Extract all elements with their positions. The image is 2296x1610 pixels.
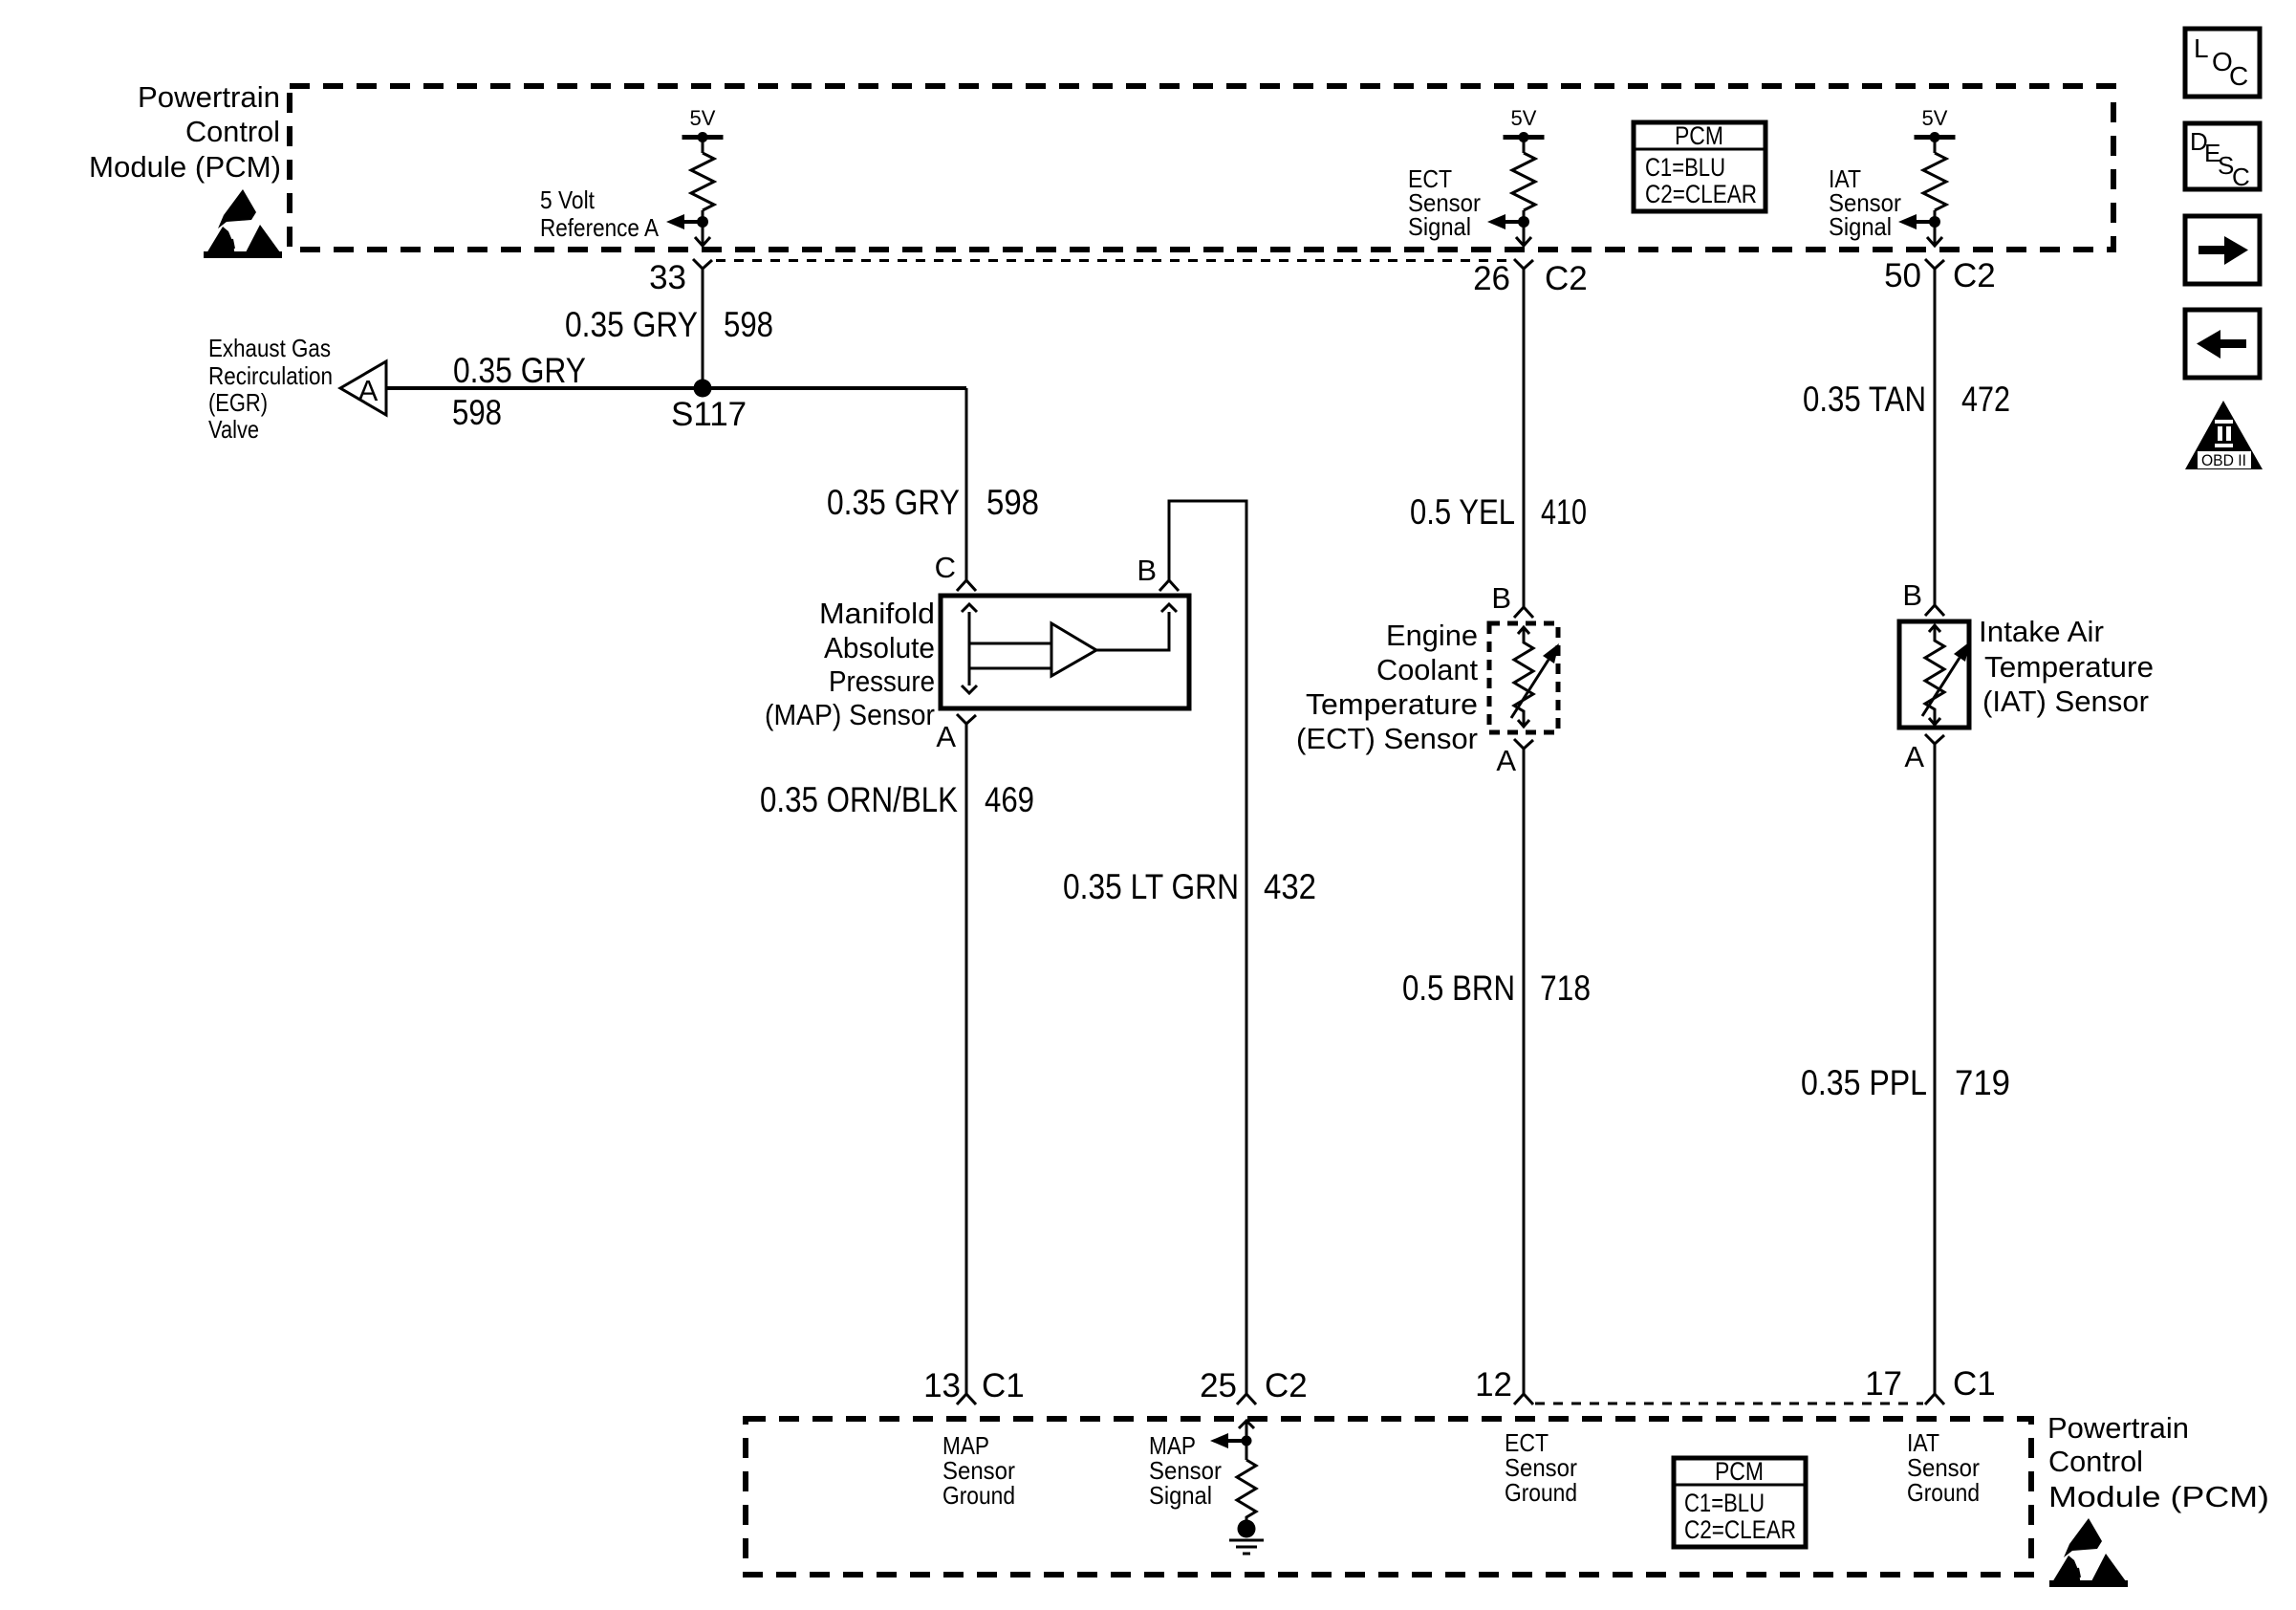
pin 26 C2 <box>1473 259 1588 297</box>
svg-text:Signal: Signal <box>1408 212 1471 241</box>
svg-text:B: B <box>1137 554 1157 587</box>
svg-text:A: A <box>1904 740 1924 773</box>
icon: LOC box <box>2185 29 2260 97</box>
svg-text:C2=CLEAR: C2=CLEAR <box>1645 180 1757 208</box>
svg-text:Coolant: Coolant <box>1376 653 1478 686</box>
svg-text:26: 26 <box>1473 260 1510 297</box>
svg-text:Powertrain: Powertrain <box>138 80 280 114</box>
svg-text:0.35 GRY: 0.35 GRY <box>453 351 586 390</box>
label: Engine Coolant Temperature (ECT) Sensor <box>1296 619 1478 755</box>
PCM internal: MAP signal pull-down resistor <box>1210 1421 1256 1522</box>
label: Powertrain Control Module (PCM), bottom-right <box>2047 1411 2269 1513</box>
pin 12 <box>1475 1366 1533 1404</box>
svg-text:Control: Control <box>185 115 280 148</box>
svg-text:C2: C2 <box>1953 257 1996 294</box>
resistor R (5V reference A pull-up) <box>666 106 724 246</box>
svg-text:B: B <box>1491 581 1511 615</box>
label: Intake Air Temperature (IAT) Sensor <box>1979 615 2154 718</box>
svg-text:17: 17 <box>1865 1365 1902 1403</box>
MAP sensor box U1 <box>941 596 1189 708</box>
svg-text:Ground: Ground <box>1505 1478 1577 1507</box>
pin B (IAT) <box>1902 578 1944 616</box>
svg-text:B: B <box>1902 578 1922 612</box>
svg-text:C1: C1 <box>1953 1365 1996 1403</box>
svg-text:PCM: PCM <box>1715 1457 1764 1486</box>
IAT thermistor <box>1922 625 1970 725</box>
svg-text:0.35 PPL: 0.35 PPL <box>1801 1063 1927 1102</box>
ECT sensor box (dashed) <box>1489 623 1558 732</box>
svg-text:0.35 TAN: 0.35 TAN <box>1803 380 1926 419</box>
svg-text:432: 432 <box>1264 867 1316 906</box>
PCM connector legend (bottom) <box>1674 1457 1806 1547</box>
svg-text:Reference A: Reference A <box>540 213 660 242</box>
svg-text:0.35 GRY: 0.35 GRY <box>565 305 698 344</box>
pin 25 C2 <box>1200 1367 1308 1404</box>
PCM module box (top, dashed) <box>290 86 2113 250</box>
svg-text:A: A <box>1496 744 1516 777</box>
svg-text:(IAT) Sensor: (IAT) Sensor <box>1982 685 2149 718</box>
pin A (MAP) <box>936 714 976 753</box>
svg-text:718: 718 <box>1540 968 1591 1008</box>
svg-text:472: 472 <box>1961 380 2010 419</box>
svg-text:Temperature: Temperature <box>1984 650 2154 684</box>
svg-text:Absolute: Absolute <box>824 631 935 664</box>
connector face line C2 (top, dashed) <box>716 259 1512 262</box>
svg-text:Control: Control <box>2048 1445 2143 1478</box>
label: 0.35 TAN 472 <box>1803 380 2010 419</box>
svg-text:(MAP) Sensor: (MAP) Sensor <box>765 698 935 731</box>
PCM module box (bottom, dashed) <box>746 1419 2031 1575</box>
label: ECT Sensor Ground <box>1505 1428 1577 1507</box>
wire: IAT A down to pin 17 <box>1934 744 1937 1394</box>
resistor R (ECT signal pull-up) <box>1487 106 1545 246</box>
wire: EGR to corner (main horizontal) <box>386 386 966 390</box>
svg-text:C1=BLU: C1=BLU <box>1684 1489 1765 1517</box>
label: 0.35 PPL 719 <box>1801 1063 2010 1102</box>
MAP internal: op-amp triangle <box>1051 623 1096 676</box>
pin A (ECT) <box>1496 739 1533 777</box>
pin 33 <box>649 259 712 296</box>
wire: pin 50 down to IAT B <box>1934 269 1937 605</box>
svg-text:0.35 LT GRN: 0.35 LT GRN <box>1063 867 1239 906</box>
label: ECT Sensor Signal <box>1408 164 1481 241</box>
svg-text:Recirculation: Recirculation <box>208 361 333 390</box>
label: 0.5 YEL 410 <box>1410 492 1587 532</box>
icon: left-arrow box <box>2185 310 2260 378</box>
svg-text:Module (PCM): Module (PCM) <box>2048 1480 2269 1513</box>
label: 0.35 LT GRN 432 <box>1063 867 1316 906</box>
wire: pin 26 down to ECT B <box>1523 269 1526 607</box>
svg-text:C: C <box>2232 163 2250 191</box>
svg-text:(EGR): (EGR) <box>208 388 268 417</box>
svg-text:C2=CLEAR: C2=CLEAR <box>1684 1515 1796 1544</box>
label: IAT Sensor Signal <box>1829 164 1901 241</box>
ESD symbol (top PCM) <box>204 189 282 258</box>
svg-text:598: 598 <box>986 483 1039 522</box>
svg-text:25: 25 <box>1200 1367 1237 1404</box>
svg-text:S117: S117 <box>671 396 747 433</box>
svg-text:Ground: Ground <box>942 1481 1015 1510</box>
pin C (MAP) <box>935 551 976 591</box>
svg-text:12: 12 <box>1475 1366 1512 1403</box>
pin B (ECT) <box>1491 581 1533 618</box>
label: IAT Sensor Ground <box>1907 1428 1980 1507</box>
svg-text:410: 410 <box>1541 492 1587 532</box>
MAP internal: output to B <box>1096 604 1177 650</box>
label: MAP Sensor Signal <box>1149 1431 1222 1510</box>
svg-text:Ground: Ground <box>1907 1478 1980 1507</box>
label: Powertrain Control Module (PCM), top-left <box>89 80 281 184</box>
label: Exhaust Gas Recirculation (EGR) Valve <box>208 334 333 444</box>
svg-text:C1: C1 <box>982 1367 1025 1404</box>
svg-text:Engine: Engine <box>1386 619 1478 652</box>
svg-text:Valve: Valve <box>208 415 259 444</box>
svg-text:Pressure: Pressure <box>829 664 935 698</box>
svg-text:13: 13 <box>923 1367 961 1404</box>
svg-text:719: 719 <box>1955 1063 2010 1102</box>
svg-text:L: L <box>2194 33 2209 63</box>
svg-text:0.35 GRY: 0.35 GRY <box>827 483 960 522</box>
pin B (MAP) <box>1137 554 1179 591</box>
svg-text:C2: C2 <box>1265 1367 1308 1404</box>
ESD symbol (bottom PCM) <box>2049 1518 2128 1587</box>
svg-text:50: 50 <box>1884 257 1921 294</box>
connector face line C1 (bottom, dashed) <box>1535 1403 1923 1405</box>
PCM connector legend (top) <box>1634 121 1765 211</box>
svg-text:Signal: Signal <box>1829 212 1892 241</box>
pin A (IAT) <box>1904 734 1944 773</box>
wire: ECT A down to pin 12 <box>1523 749 1526 1394</box>
ECT thermistor <box>1511 627 1559 727</box>
label: 598 (EGR wire) <box>452 393 502 432</box>
svg-text:Module (PCM): Module (PCM) <box>89 150 281 184</box>
icon: right-arrow box <box>2185 216 2260 284</box>
svg-text:598: 598 <box>724 305 773 344</box>
svg-text:0.5 YEL: 0.5 YEL <box>1410 492 1515 532</box>
svg-text:0.5 BRN: 0.5 BRN <box>1402 968 1515 1008</box>
wire: MAP B up-over-down to pin 25 <box>1169 501 1246 1394</box>
splice S117 <box>671 380 747 434</box>
connector A: EGR valve triangle <box>340 361 386 415</box>
ground symbol (PCM internal) <box>1229 1520 1264 1555</box>
label: 0.35 GRY (EGR wire) <box>453 351 586 390</box>
svg-text:OBD II: OBD II <box>2201 451 2246 469</box>
svg-text:(ECT) Sensor: (ECT) Sensor <box>1296 722 1478 755</box>
IAT sensor box <box>1899 621 1969 728</box>
label: Manifold Absolute Pressure (MAP) Sensor <box>765 597 935 731</box>
svg-text:33: 33 <box>649 259 686 296</box>
label: 0.35 GRY 598 (MAP C wire) <box>827 483 1039 522</box>
svg-text:Exhaust Gas: Exhaust Gas <box>208 334 331 362</box>
svg-text:C: C <box>935 551 956 584</box>
svg-text:598: 598 <box>452 393 502 432</box>
svg-text:PCM: PCM <box>1675 121 1723 150</box>
svg-text:0.35 ORN/BLK: 0.35 ORN/BLK <box>760 780 958 819</box>
label: 0.35 GRY 598 (pin 33 wire) <box>565 305 773 344</box>
svg-text:A: A <box>936 720 956 753</box>
MAP internal: input arrows <box>962 604 1051 693</box>
label: 5 Volt Reference A <box>540 185 660 242</box>
svg-text:C2: C2 <box>1545 260 1588 297</box>
pin 13 C1 <box>923 1367 1025 1404</box>
icon: DESC box <box>2185 123 2260 191</box>
icon: OBD II triangle <box>2185 401 2263 469</box>
wire: pin 33 to S117 <box>702 269 704 388</box>
svg-text:469: 469 <box>985 780 1034 819</box>
label: 0.5 BRN 718 <box>1402 968 1591 1008</box>
pin 17 C1 <box>1865 1365 1996 1404</box>
svg-text:Powertrain: Powertrain <box>2047 1411 2189 1445</box>
label: MAP Sensor Ground <box>942 1431 1015 1510</box>
wire: corner down to MAP pin C <box>965 388 968 580</box>
wire: MAP A down to pin 13 <box>965 724 968 1394</box>
svg-text:5 Volt: 5 Volt <box>540 185 596 214</box>
svg-text:Temperature: Temperature <box>1306 687 1478 721</box>
resistor R (IAT signal pull-up) <box>1898 106 1956 246</box>
pin 50 C2 <box>1884 257 1996 294</box>
svg-text:A: A <box>358 374 379 407</box>
label: 0.35 ORN/BLK 469 <box>760 780 1034 819</box>
svg-text:Manifold: Manifold <box>819 597 935 630</box>
svg-text:Intake Air: Intake Air <box>1979 615 2104 648</box>
svg-text:Signal: Signal <box>1149 1481 1212 1510</box>
svg-text:C: C <box>2229 61 2248 91</box>
svg-text:C1=BLU: C1=BLU <box>1645 153 1725 182</box>
